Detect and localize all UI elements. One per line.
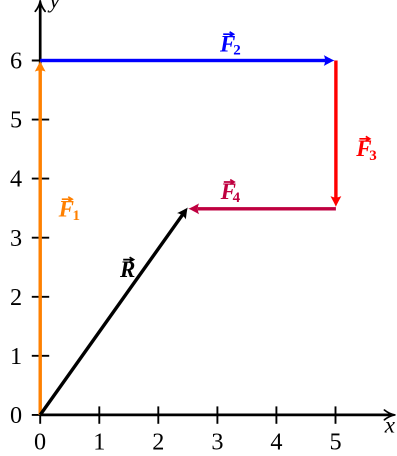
svg-text:5: 5 <box>329 429 341 456</box>
x axis <box>40 414 391 417</box>
svg-text:1: 1 <box>10 343 22 370</box>
svg-text:3: 3 <box>10 225 22 252</box>
svg-text:y: y <box>48 0 61 13</box>
svg-text:0: 0 <box>34 429 46 456</box>
x axis ticks <box>40 406 335 423</box>
svg-text:0: 0 <box>10 402 22 429</box>
svg-text:5: 5 <box>10 107 22 134</box>
vector R (black, origin to (2.5,3.5)) <box>40 204 192 415</box>
label F3 <box>355 136 377 164</box>
label F1 <box>58 196 80 224</box>
vector F1 (orange, origin up to (0,6)) <box>35 61 46 415</box>
x axis arrowhead <box>384 410 395 420</box>
svg-text:4: 4 <box>233 190 241 206</box>
label F2 <box>219 31 241 58</box>
y axis arrowhead <box>35 1 45 12</box>
svg-text:4: 4 <box>270 429 282 456</box>
vector F2 (blue, (0,6) to (5,6)) <box>40 55 334 66</box>
svg-text:1: 1 <box>93 429 105 456</box>
y axis numbers <box>10 48 22 429</box>
svg-text:4: 4 <box>10 166 22 193</box>
label F4 <box>220 179 241 206</box>
svg-text:1: 1 <box>73 208 81 224</box>
svg-text:6: 6 <box>10 48 22 75</box>
y axis <box>39 4 42 415</box>
x axis numbers <box>34 429 342 456</box>
vector F4 (purple, (5,3.5) to (2.5,3.5)) <box>188 203 336 214</box>
svg-text:3: 3 <box>369 148 377 164</box>
label R <box>119 257 135 282</box>
svg-text:2: 2 <box>152 429 164 456</box>
vector F3 (red, (5,6) to (5,3.5)) <box>331 61 342 207</box>
y axis ticks <box>32 61 49 415</box>
svg-text:x: x <box>384 413 396 438</box>
svg-text:2: 2 <box>233 42 241 58</box>
svg-text:2: 2 <box>10 284 22 311</box>
svg-text:3: 3 <box>211 429 223 456</box>
